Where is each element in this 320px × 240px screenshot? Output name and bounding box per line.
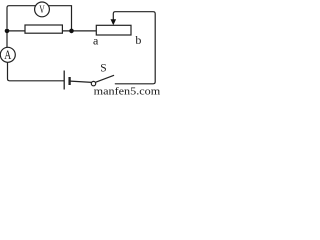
- svg-text:manfen5.com: manfen5.com: [94, 87, 161, 96]
- svg-text:A: A: [4, 47, 11, 62]
- svg-text:b: b: [135, 33, 141, 47]
- svg-text:S: S: [100, 63, 106, 75]
- svg-text:a: a: [93, 33, 99, 47]
- svg-text:V: V: [39, 4, 45, 16]
